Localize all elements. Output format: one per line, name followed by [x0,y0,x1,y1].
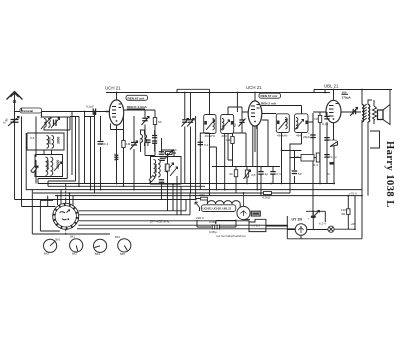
svg-text:4,2kΩ: 4,2kΩ [262,196,271,200]
speaker [378,90,391,125]
bus line F antenna return [15,199,197,201]
svg-text:50: 50 [233,123,237,127]
trimmer pair mid 2 [187,93,194,194]
knob 3 [94,239,107,256]
svg-text:4Ω: 4Ω [341,212,346,216]
oscillator feedback coils top [139,130,158,152]
svg-text:0,6: 0,6 [30,136,35,140]
svg-text:BK3: BK3 [95,252,100,256]
heater feed resistor 40ohm [196,193,207,200]
rail1 riser [324,90,326,93]
tube U1 grid trimmer [142,110,150,152]
cap 0,1u right [324,155,337,159]
svg-text:20000: 20000 [46,160,50,169]
svg-text:UCH 21: UCH 21 [246,85,262,90]
field coil zigzag [373,100,377,124]
bus line A [38,183,335,185]
svg-text:0,1μ: 0,1μ [331,155,337,159]
series capacitor 0,1uF [86,105,96,116]
IF transformer 1 left box [204,115,216,139]
input coil L1 with trimmer [39,112,60,130]
label box REN 67mA (2) [259,93,281,98]
svg-text:BK4: BK4 [115,235,120,239]
svg-text:0,3: 0,3 [314,163,319,167]
top rail 2 [314,90,392,93]
input coil L2 pair [27,133,64,150]
svg-text:0,1: 0,1 [204,143,209,147]
svg-text:40: 40 [229,172,233,176]
tube U2 bottom stubs [253,126,257,190]
grid resistor [122,116,131,186]
heater label box [201,205,236,212]
rotary switch [52,203,79,230]
GL box [251,211,260,216]
bottom return wire [287,216,362,239]
label REN 2mA (3) [0,0,1,1]
wires IF2 [282,108,314,184]
svg-text:2μ: 2μ [265,172,269,176]
svg-text:UY 1N: UY 1N [292,218,303,222]
svg-text:+65: +65 [351,222,357,226]
bus line B [48,185,205,187]
svg-text:220 V: 220 V [196,216,205,220]
U2 grid cap [233,93,246,134]
screen resistor 40k [229,167,238,194]
oscillator trimmer cap bottom [159,180,164,200]
dial lamp [319,222,334,233]
wire antenna to input coils [15,111,111,113]
vertical feeds center [210,134,225,190]
U3 input components [313,112,330,163]
oscillator coupling cap [159,138,164,154]
svg-text:100μ: 100μ [330,138,337,142]
dropper resistor 1,0 [341,196,350,229]
svg-text:1M: 1M [226,138,231,142]
bus line G to switch [22,108,56,207]
bus line C [26,189,362,191]
svg-text:nur bei Wechselstrom: nur bei Wechselstrom [216,234,246,238]
padding resistor 50 ohm [164,148,177,159]
oscillator tank box [151,157,182,185]
svg-text:1W: 1W [314,117,319,121]
svg-text:+: + [308,131,310,135]
bracket right of output transformer [370,131,380,148]
cathode resistor U1 [145,110,162,152]
svg-text:50: 50 [158,120,162,124]
svg-text:+70 V: +70 V [349,192,358,196]
svg-text:0,1: 0,1 [277,172,282,176]
svg-text:REN K 2,9mA: REN K 2,9mA [127,105,148,109]
tube U1 anode resistor [166,153,169,211]
stub rail above IF1 [177,89,210,92]
U2 grid leak resistor [226,133,246,160]
svg-text:50: 50 [298,172,302,176]
svg-text:6,3 V: 6,3 V [319,222,327,226]
svg-text:0,1μ: 0,1μ [322,122,328,126]
center row rail [212,166,280,168]
svg-text:BK1: BK1 [70,235,75,239]
wire IF1 [210,93,243,197]
top rail 1 [106,92,330,94]
svg-text:0,1: 0,1 [104,142,109,146]
cap 50 left [282,151,302,184]
tube U3 UBL21 [313,90,361,141]
pot 4,5k diag [244,167,256,184]
oscillator padder resistor diag [149,175,156,183]
svg-text:REN 2 mA: REN 2 mA [261,102,277,106]
svg-text:UCH21 UCH21 UBL21: UCH21 UCH21 UBL21 [203,207,232,211]
knob 4 [115,235,131,256]
input coil L3 pair with trimmer [35,155,63,177]
svg-text:M: M [327,172,330,176]
electrolytic 50uF blob [306,211,325,230]
right vertical rails [355,120,368,239]
svg-text:25μF: 25μF [303,135,310,139]
switch feeder wires right [77,193,295,229]
tube U2 UCH21 [242,93,276,153]
svg-text:464kHz: 464kHz [277,133,288,137]
heater chain bumps [207,200,240,207]
small resistor dashes below tube U1 [115,155,119,159]
UY1N tube circle [287,224,328,236]
svg-text:1,1: 1,1 [39,114,43,119]
wire switch left loops [32,190,110,234]
junction node [106,111,108,113]
svg-text:BK1: BK1 [56,238,61,242]
UYTN box left [244,219,288,231]
REN2mA wire to IF2 [275,106,302,114]
black blob cap [330,162,334,165]
electrolytic 25uF [303,131,316,140]
Ferrocart label box [20,108,42,113]
resistor 0,3 vertical [314,153,320,167]
cap 0,1 left [198,133,210,190]
svg-text:BK5: BK5 [120,252,125,256]
switch feeder wires top [58,184,74,236]
svg-text:464: 464 [296,133,301,137]
bus line D [33,192,290,194]
AVC capacitor 0,1 [98,116,109,190]
rectifier tube circle [237,192,250,219]
coupling trimmer to output [350,108,358,117]
knob 1 [44,238,61,256]
mains caps 0,05u [197,220,236,235]
label 105 [342,91,352,100]
svg-text:40Ω: 40Ω [199,193,205,197]
svg-text:0,1μF: 0,1μF [86,105,94,109]
input circuit loop 1 [44,117,70,130]
svg-text:BK2: BK2 [72,252,77,256]
antenna trimmer capacitor [2,112,19,200]
svg-text:REN 67 mA: REN 67 mA [261,94,278,98]
svg-text:ZF=452 kHz: ZF=452 kHz [149,220,170,224]
lamp wire to rails [334,228,355,230]
tube U1 bottom wire [111,124,124,141]
riser x195 [195,116,197,200]
speaker transformer primary [362,90,372,123]
label REN 2mA (2) [261,102,277,106]
misc verticals top to bus [117,152,156,184]
wire left risers [79,112,95,194]
potentiometer arrow [130,116,138,190]
IF transformer 2 right box [295,114,308,138]
tube U1 UCH21 [109,93,145,153]
cap 0,1u (2) [270,167,281,184]
ladder verticals [168,184,182,215]
cap 2u [258,167,268,196]
tank trimmer branch [162,150,178,211]
svg-text:30000: 30000 [154,164,158,173]
svg-text:3000: 3000 [57,136,61,144]
antenna [7,92,23,112]
svg-text:REN 67 mA: REN 67 mA [128,96,145,100]
IF transformer 1 right box [221,115,234,139]
svg-text:1M: 1M [126,142,131,146]
resistor 4,2k horizontal on bus D [262,192,272,200]
svg-text:+: + [308,217,310,221]
label box REN 67mA [126,95,148,100]
resistor 1W horizontal [290,155,320,162]
bus line E [55,195,362,197]
svg-text:BK2: BK2 [44,252,49,256]
svg-text:UBL 21: UBL 21 [324,84,339,89]
trimmer pair mid [182,93,189,184]
svg-text:2000: 2000 [48,137,52,145]
right side smoothing components [313,138,338,215]
resistor 1M diagonal [31,166,38,173]
label REN K 2,9mA [127,105,148,109]
svg-text:Ferrocart: Ferrocart [22,109,33,113]
IF transformer 2 left box [276,114,289,138]
svg-text:UCH 21: UCH 21 [105,86,121,91]
knob 2 [70,235,83,256]
nested loop wiring left coil box [22,112,76,207]
mains plug arrow [195,199,200,212]
svg-text:Harry 1038 L: Harry 1038 L [384,141,395,208]
svg-text:170μA: 170μA [342,96,352,100]
svg-text:4,5: 4,5 [251,173,256,177]
